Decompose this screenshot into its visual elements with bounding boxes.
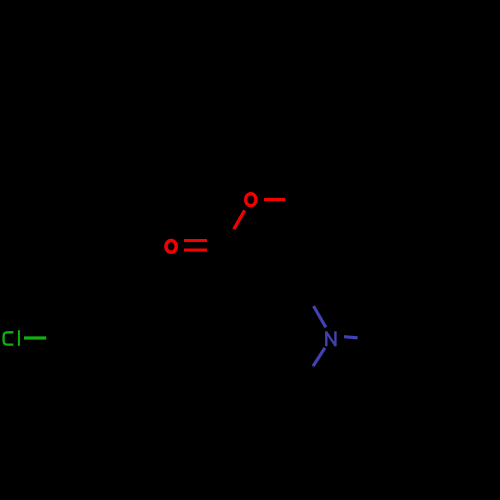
wire bond N-C down-left (blue half) <box>313 348 325 366</box>
atom Cl chlorine label <box>4 330 19 346</box>
atom N amine nitrogen label <box>326 331 335 346</box>
wire bond N-C right (blue half) <box>344 337 358 338</box>
atom O2 carbonyl oxygen label <box>166 241 176 253</box>
wire bond Cl-C aryl (green half) <box>24 336 46 339</box>
atom O1 ester oxygen label <box>246 194 256 206</box>
wire bond O1-CH3 (red half) <box>264 198 285 201</box>
wire bond N-C up-left (blue half) <box>314 306 326 327</box>
wire bond O1-C carbonyl (red half) <box>234 210 245 229</box>
wire double bond C=O2 upper line (red half) <box>184 239 207 242</box>
wire double bond C=O2 lower line (red half) <box>184 248 207 251</box>
